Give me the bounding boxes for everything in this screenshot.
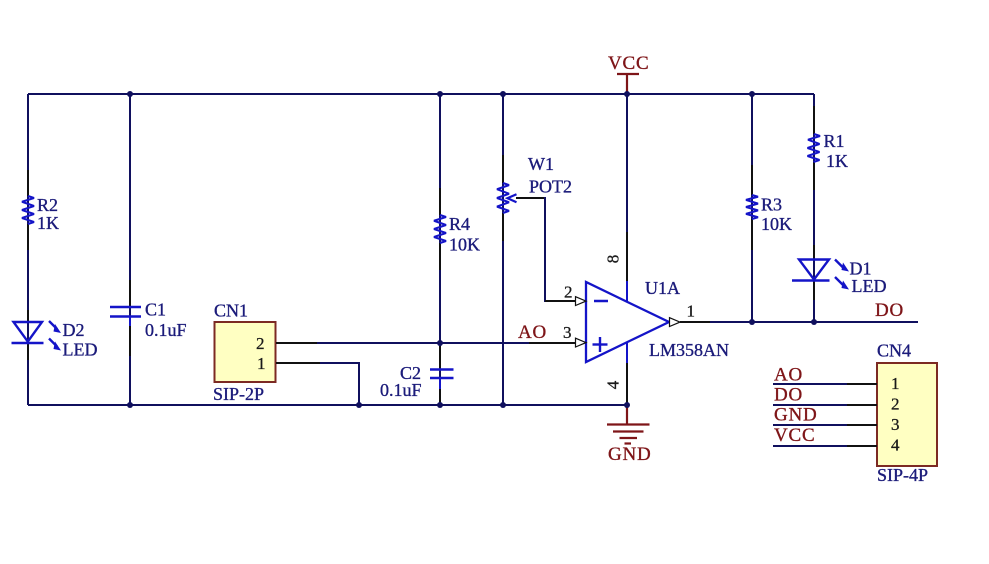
svg-text:8: 8 — [604, 255, 623, 264]
CN4 pin 4 wire (VCC) — [773, 425, 877, 446]
svg-text:C1: C1 — [145, 300, 166, 320]
capacitor C1 — [110, 280, 187, 356]
junction node top rail / R3 — [749, 91, 755, 97]
svg-text:AO: AO — [518, 322, 547, 343]
svg-text:1: 1 — [687, 302, 696, 321]
wire W1 wiper to op-amp pin2 — [516, 197, 545, 199]
svg-text:CN1: CN1 — [214, 301, 248, 321]
wire DO net (op-amp output) — [710, 321, 918, 323]
junction node bottom rail / C2 — [437, 402, 443, 408]
svg-text:R2: R2 — [37, 195, 58, 215]
svg-text:1K: 1K — [37, 213, 59, 233]
svg-text:2: 2 — [256, 334, 265, 353]
svg-text:3: 3 — [563, 323, 572, 342]
junction node bottom rail / pin4 GND — [624, 402, 630, 408]
potentiometer W1 — [497, 154, 572, 241]
junction node top rail / W1 — [500, 91, 506, 97]
resistor R4 — [434, 188, 480, 270]
resistor R2 — [22, 170, 59, 250]
svg-text:W1: W1 — [528, 154, 554, 174]
svg-text:VCC: VCC — [608, 53, 649, 74]
svg-text:4: 4 — [604, 380, 623, 389]
svg-text:SIP-2P: SIP-2P — [213, 384, 264, 404]
junction node DO wire / D1 — [811, 319, 817, 325]
wire W1 pot branch — [502, 94, 504, 405]
op-amp pin 4 (V-) — [604, 342, 628, 405]
svg-text:AO: AO — [774, 365, 803, 386]
svg-text:SIP-4P: SIP-4P — [877, 465, 928, 485]
svg-text:U1A: U1A — [645, 278, 680, 298]
svg-text:4: 4 — [891, 436, 900, 455]
svg-text:R3: R3 — [761, 195, 782, 215]
wire bottom rail — [28, 404, 627, 406]
svg-text:D2: D2 — [63, 320, 85, 340]
svg-text:2: 2 — [891, 395, 900, 414]
op-amp pin 8 (V+) — [604, 232, 628, 302]
wire AO net (CN1 pin2 to op-amp +) — [317, 342, 530, 344]
CN1 pin 2 — [276, 342, 317, 344]
power port VCC — [608, 53, 649, 94]
ground GND — [607, 405, 652, 465]
svg-text:LM358AN: LM358AN — [649, 340, 729, 360]
wire R3 branch — [751, 94, 753, 322]
junction node bottom rail / C1 — [127, 402, 133, 408]
op-amp U1A — [586, 278, 729, 362]
LED D2 — [12, 310, 98, 360]
wire CN1 pin1 to bottom rail — [319, 363, 359, 405]
svg-text:10K: 10K — [761, 214, 792, 234]
svg-text:R1: R1 — [824, 131, 845, 151]
svg-text:1: 1 — [257, 354, 266, 373]
CN4 pin 2 wire (DO) — [773, 385, 877, 406]
junction node top rail / R4 — [437, 91, 443, 97]
junction node bottom rail / CN1 pin1 — [356, 402, 362, 408]
svg-text:1K: 1K — [826, 151, 848, 171]
op-amp pin 1 (output) — [670, 302, 711, 327]
CN4 pin 3 wire (GND) — [773, 405, 877, 426]
svg-text:GND: GND — [608, 444, 652, 465]
CN4 pin 1 wire (AO) — [773, 365, 877, 386]
svg-text:0.1uF: 0.1uF — [380, 380, 422, 400]
svg-text:LED: LED — [63, 340, 98, 360]
wire op-amp V+ (pin 8) branch — [626, 94, 628, 232]
capacitor C2 — [380, 346, 454, 405]
wire R4 branch — [439, 94, 441, 343]
connector CN1 — [213, 301, 276, 405]
resistor R3 — [746, 165, 792, 250]
junction node DO wire / R3 — [749, 319, 755, 325]
svg-text:0.1uF: 0.1uF — [145, 320, 187, 340]
resistor R1 — [808, 106, 849, 190]
LED D1 — [792, 245, 887, 300]
svg-text:1: 1 — [891, 374, 900, 393]
svg-text:3: 3 — [891, 415, 900, 434]
svg-text:DO: DO — [875, 300, 904, 321]
connector CN4 — [877, 341, 937, 486]
wire C1 branch — [129, 94, 131, 405]
junction node bottom rail / W1 — [500, 402, 506, 408]
op-amp pin 3 (non-inverting input) — [529, 323, 586, 347]
svg-text:R4: R4 — [449, 214, 470, 234]
wire C2 branch — [439, 343, 441, 405]
svg-text:VCC: VCC — [774, 425, 815, 446]
svg-text:GND: GND — [774, 405, 818, 426]
junction node top rail / VCC — [624, 91, 630, 97]
junction node top rail / C1 — [127, 91, 133, 97]
svg-text:LED: LED — [852, 276, 887, 296]
svg-text:DO: DO — [774, 385, 803, 406]
wire left branch (R2/D2 column) — [27, 94, 29, 405]
svg-text:POT2: POT2 — [529, 177, 572, 197]
svg-text:CN4: CN4 — [877, 341, 911, 361]
wire top rail — [28, 93, 814, 95]
svg-text:2: 2 — [564, 283, 573, 302]
junction node AO wire / R4-C2 — [437, 340, 443, 346]
CN1 pin 1 — [276, 362, 320, 364]
svg-text:10K: 10K — [449, 235, 480, 255]
op-amp pin 2 (inverting input) — [545, 283, 586, 306]
wire R1/D1 branch — [813, 94, 815, 322]
